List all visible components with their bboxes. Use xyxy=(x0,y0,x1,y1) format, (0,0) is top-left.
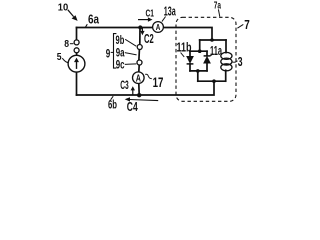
wire coil top lead xyxy=(225,40,227,53)
junction node bus4 xyxy=(212,79,216,83)
leader 3 xyxy=(233,61,238,62)
bracket 9 xyxy=(114,34,117,69)
wire diode 11a cathode lead xyxy=(206,51,208,56)
wire diode 11a anode lead xyxy=(206,63,208,71)
leader 11a xyxy=(210,54,213,56)
diode 11a cathode bar xyxy=(204,55,211,57)
wire middle branch between contacts xyxy=(138,50,141,60)
wire left branch upper xyxy=(76,28,78,40)
connector 8 lower contact xyxy=(74,48,79,53)
junction node bus1 xyxy=(210,38,214,42)
coil 3 loop1 xyxy=(221,52,232,59)
wire top horizontal right of ammeter 13a xyxy=(163,28,212,41)
svg-text:6b: 6b xyxy=(108,100,117,112)
leader 7a xyxy=(218,9,219,16)
svg-text:7a: 7a xyxy=(214,0,221,12)
ammeter 13a xyxy=(153,22,164,33)
svg-text:C2: C2 xyxy=(144,31,154,46)
coil 3 loop3 xyxy=(221,64,232,71)
wire left branch between connector and source xyxy=(76,53,78,55)
wire middle branch below ammeter 17 xyxy=(138,83,140,95)
wire bottom horizontal 6b xyxy=(77,81,215,95)
arrow C2 xyxy=(141,28,143,31)
ammeter 17 xyxy=(133,72,145,84)
svg-text:C3: C3 xyxy=(120,80,129,92)
arrow C3 xyxy=(132,90,134,95)
svg-text:11a: 11a xyxy=(210,44,223,58)
contact 9b upper circle xyxy=(137,45,142,50)
wire top horizontal 6a xyxy=(77,27,153,29)
leader 6b xyxy=(111,96,114,100)
leader 13a xyxy=(162,17,166,22)
junction node top of branch 9 xyxy=(138,25,142,29)
svg-text:9c: 9c xyxy=(116,57,125,71)
wire left branch lower xyxy=(76,72,78,95)
wire diode 11b anode lead xyxy=(189,51,191,56)
leader 5 xyxy=(62,58,68,63)
leader 7 xyxy=(237,24,243,28)
leader 17 xyxy=(145,74,152,78)
coil 3 loop2 xyxy=(221,58,232,65)
svg-text:17: 17 xyxy=(153,74,164,90)
arrow leader 10 xyxy=(68,10,74,17)
wire vertical bus3 to bus4 xyxy=(197,71,199,81)
current source 5 circle xyxy=(68,55,85,72)
wire bus2 diode tops xyxy=(190,50,207,52)
leader 9b xyxy=(125,39,136,46)
diode 11b cathode bar xyxy=(187,63,194,65)
svg-text:C4: C4 xyxy=(127,100,138,114)
svg-text:5: 5 xyxy=(57,51,62,63)
svg-text:3: 3 xyxy=(238,55,243,69)
leader 9a xyxy=(125,53,137,55)
diode 11b triangle xyxy=(187,56,194,63)
leader 9 tick xyxy=(111,51,114,53)
svg-text:7: 7 xyxy=(244,18,250,32)
dashed enclosure 7 xyxy=(176,17,236,101)
wire middle branch below contact xyxy=(138,65,140,72)
wire bus4 bottom of block xyxy=(198,80,226,82)
arrow C4 xyxy=(130,100,159,101)
wire vertical bus1 to bus2 xyxy=(199,40,201,51)
svg-text:9: 9 xyxy=(106,46,111,60)
svg-text:A: A xyxy=(136,73,141,84)
contact 9c lower circle xyxy=(137,60,142,65)
svg-text:A: A xyxy=(156,22,161,32)
leader 6a xyxy=(85,24,87,27)
wire coil bottom lead xyxy=(225,70,227,81)
svg-text:C1: C1 xyxy=(146,8,155,20)
junction node bottom of branch 9 xyxy=(137,93,141,97)
svg-text:10: 10 xyxy=(58,1,69,13)
current source 5 arrow xyxy=(76,61,78,69)
diode 11a triangle xyxy=(204,57,211,64)
svg-text:13a: 13a xyxy=(164,4,177,18)
wire diode 11b cathode lead xyxy=(189,64,191,71)
arrow C1 xyxy=(138,19,149,21)
svg-text:6a: 6a xyxy=(88,13,100,27)
svg-text:8: 8 xyxy=(64,39,69,50)
svg-text:11b: 11b xyxy=(177,40,192,54)
wire bus1 top of diode/coil block xyxy=(200,39,226,41)
leader 8 xyxy=(70,43,74,45)
junction node bus3 xyxy=(196,69,200,73)
connector 8 upper contact xyxy=(74,40,79,45)
wire bus3 diode bottoms xyxy=(190,70,207,72)
leader 11b xyxy=(181,53,185,57)
junction node bus2 xyxy=(198,49,202,53)
leader 9c xyxy=(125,63,137,66)
wire middle branch upper xyxy=(139,28,141,45)
